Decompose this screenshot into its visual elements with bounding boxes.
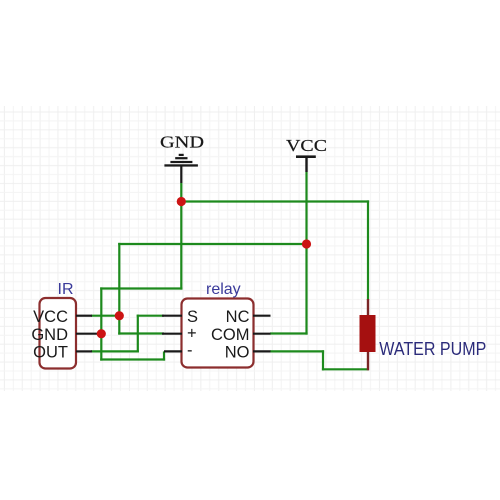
- component relay box: [182, 299, 254, 368]
- wire GND vertical beside IR: [100, 287, 102, 360]
- svg-text:-: -: [187, 341, 193, 359]
- junction dot IR VCC pin: [115, 311, 124, 320]
- wire VCC vertical from VCC symbol down to COM row: [305, 172, 307, 335]
- pin OUT of IR: [33, 344, 92, 362]
- svg-text:COM: COM: [211, 326, 250, 344]
- pin - of relay: [164, 341, 193, 359]
- wire vertical stub up to relay minus pin: [163, 351, 165, 360]
- svg-text:VCC: VCC: [286, 136, 327, 155]
- svg-text:relay: relay: [206, 281, 241, 298]
- svg-text:NO: NO: [225, 344, 250, 362]
- water pump load body: [360, 299, 376, 370]
- pin S of relay: [162, 308, 198, 326]
- svg-text:OUT: OUT: [33, 344, 68, 362]
- wire VCC vertical down to IR VCC pin and relay plus: [118, 243, 120, 335]
- svg-text:IR: IR: [58, 281, 74, 298]
- ground symbol GND: [160, 133, 204, 184]
- wire NO vertical down: [322, 350, 324, 370]
- wire from IR OUT pin rightward: [91, 350, 139, 352]
- wire GND horizontal segment above IR: [100, 287, 182, 289]
- wire OUT signal vertical up: [137, 315, 139, 353]
- wire horizontal to relay plus pin: [118, 332, 164, 334]
- svg-text:GND: GND: [31, 326, 68, 344]
- svg-text:S: S: [187, 308, 198, 326]
- wire from IR VCC pin to junction: [91, 315, 120, 317]
- pin VCC of IR: [33, 308, 92, 326]
- wire from relay NO pin rightward: [270, 350, 324, 352]
- svg-text:NC: NC: [226, 308, 250, 326]
- wire VCC rail horizontal: [118, 243, 307, 245]
- wire NO horizontal to pump bottom lead: [322, 368, 369, 370]
- svg-text:GND: GND: [160, 133, 204, 152]
- pin NO of relay: [225, 344, 271, 362]
- pin + of relay: [162, 325, 197, 343]
- wire GND rail horizontal to water pump: [180, 200, 369, 202]
- svg-text:WATER PUMP: WATER PUMP: [379, 339, 486, 359]
- wire GND horizontal below IR to relay minus: [100, 358, 165, 360]
- wire vertical down to water pump top lead: [367, 200, 369, 300]
- pin GND of IR: [31, 326, 97, 344]
- wire horizontal to relay S pin: [137, 315, 164, 317]
- pin NC of relay: [226, 308, 271, 326]
- svg-text:+: +: [187, 325, 197, 343]
- wire COM pin to VCC vertical: [270, 332, 308, 334]
- junction dot IR GND pin: [97, 329, 106, 338]
- component IR sensor module box: [40, 298, 77, 369]
- junction dot GND rail: [177, 197, 186, 206]
- pin COM of relay: [211, 326, 271, 344]
- svg-text:VCC: VCC: [33, 308, 68, 326]
- power symbol VCC: [286, 136, 327, 172]
- wire GND vertical from ground symbol down through junction: [180, 183, 182, 290]
- junction dot VCC rail: [302, 239, 311, 248]
